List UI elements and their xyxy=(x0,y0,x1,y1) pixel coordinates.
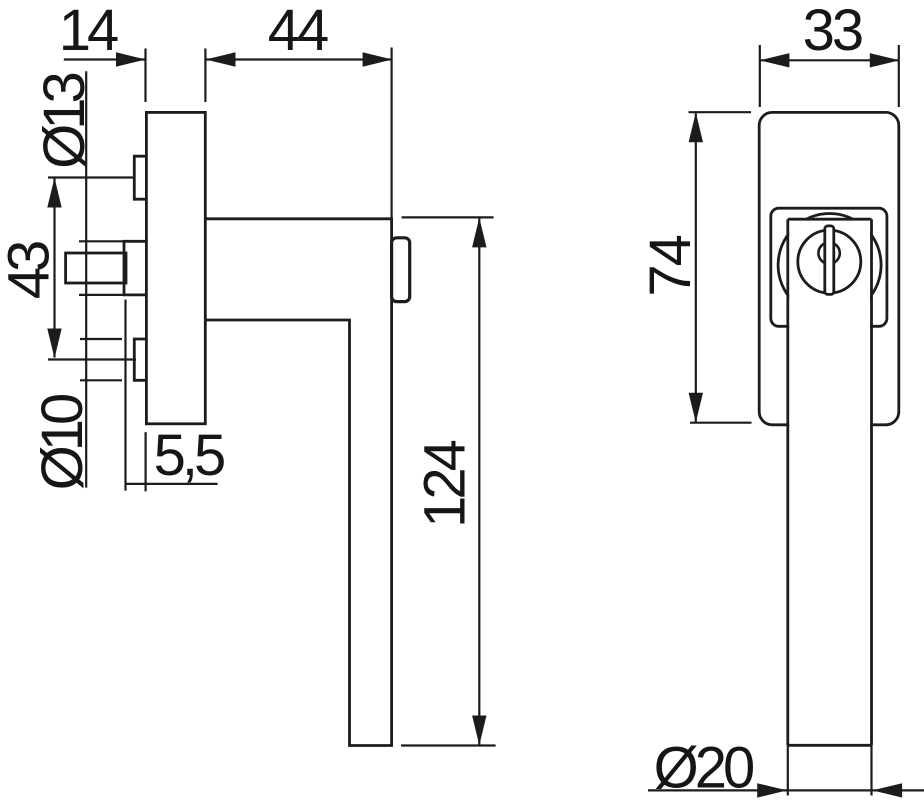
extension line 33 right xyxy=(898,45,900,107)
rosette plate side view xyxy=(146,112,205,423)
diameter reference vertical line x=86 xyxy=(85,71,87,487)
arrowhead at x=145 pointing right xyxy=(116,52,146,66)
leader top nub center y=177.5 xyxy=(48,176,134,178)
dimension line Ø20 xyxy=(648,789,924,791)
extension bottom nub top edge xyxy=(80,338,122,340)
dimension line 124 vertical xyxy=(478,218,480,744)
extension line plate right edge xyxy=(204,49,206,103)
square spindle 7mm xyxy=(66,253,126,283)
key slot bar xyxy=(825,226,834,295)
lock rose circle xyxy=(798,230,861,293)
arrowhead Ø20 left pointing right xyxy=(757,783,787,797)
arrowhead at x=206.5 pointing left xyxy=(206,52,236,66)
extension line 124 bottom xyxy=(401,744,496,746)
arrowhead 74 bottom pointing down xyxy=(689,393,703,423)
arrowhead 124 top pointing up xyxy=(472,218,486,248)
dimension line 33 xyxy=(760,59,898,61)
arrowhead Ø20 right pointing left xyxy=(872,783,902,797)
svg-text:44: 44 xyxy=(268,0,328,63)
arrowhead at x=391.6 pointing right xyxy=(363,52,393,66)
dimension line 14/44 left segment xyxy=(64,58,145,60)
middle nub (Ø13 boss) xyxy=(124,241,146,295)
extension line plate left edge xyxy=(144,49,146,103)
extension line 74 bottom xyxy=(690,422,752,424)
svg-text:124: 124 xyxy=(413,440,478,528)
shaft bottom edge xyxy=(788,744,872,747)
top nub (Ø10 pin) xyxy=(134,156,146,199)
extension middle nub bottom edge xyxy=(79,294,124,296)
arrowhead 33 left pointing left xyxy=(760,53,790,67)
extension line 74 top xyxy=(689,111,752,113)
shaft white fill masking collar circle xyxy=(789,220,870,744)
rosette front view rounded rectangle xyxy=(759,112,899,424)
extension line 124 top xyxy=(402,216,494,218)
shaft extension line below right xyxy=(870,745,872,795)
extension line handle end top xyxy=(391,48,393,219)
svg-text:33: 33 xyxy=(803,0,862,63)
arrowhead 33 right pointing right xyxy=(870,53,900,67)
lock cylinder small circle xyxy=(818,242,839,263)
leader bottom nub center y=359.5 xyxy=(48,358,136,360)
shaft extension line below left xyxy=(787,745,789,795)
arrowhead 74 top pointing up xyxy=(689,112,703,142)
extension middle nub top edge xyxy=(79,240,124,242)
bottom nub (Ø10 pin) xyxy=(134,339,146,380)
svg-text:14: 14 xyxy=(59,0,118,63)
shaft right edge xyxy=(870,219,873,745)
arrowhead 43 top pointing up xyxy=(47,178,61,208)
handle outline (arm and lever) xyxy=(205,219,391,746)
clip detail on handle end xyxy=(392,238,410,302)
shaft top edge xyxy=(788,218,872,221)
neck collar circle xyxy=(778,214,881,317)
dimension line 5,5 xyxy=(125,483,218,485)
extension line 5,5 right xyxy=(145,432,147,491)
dimension line 44 segment xyxy=(207,58,392,60)
neck cover rounded rectangle xyxy=(771,208,887,326)
extension bottom nub bottom edge xyxy=(80,379,122,381)
dimension line 74 vertical xyxy=(695,113,697,422)
arrowhead 43 bottom pointing down xyxy=(47,329,61,359)
shaft left edge xyxy=(786,219,789,745)
svg-text:43: 43 xyxy=(0,242,62,299)
svg-text:74: 74 xyxy=(638,235,703,296)
extension line 5,5 left xyxy=(124,300,126,491)
arrowhead 124 bottom pointing down xyxy=(472,716,486,746)
extension line 33 left xyxy=(759,45,761,107)
dimension line 43 vertical xyxy=(53,179,55,358)
svg-text:5,5: 5,5 xyxy=(154,423,224,488)
